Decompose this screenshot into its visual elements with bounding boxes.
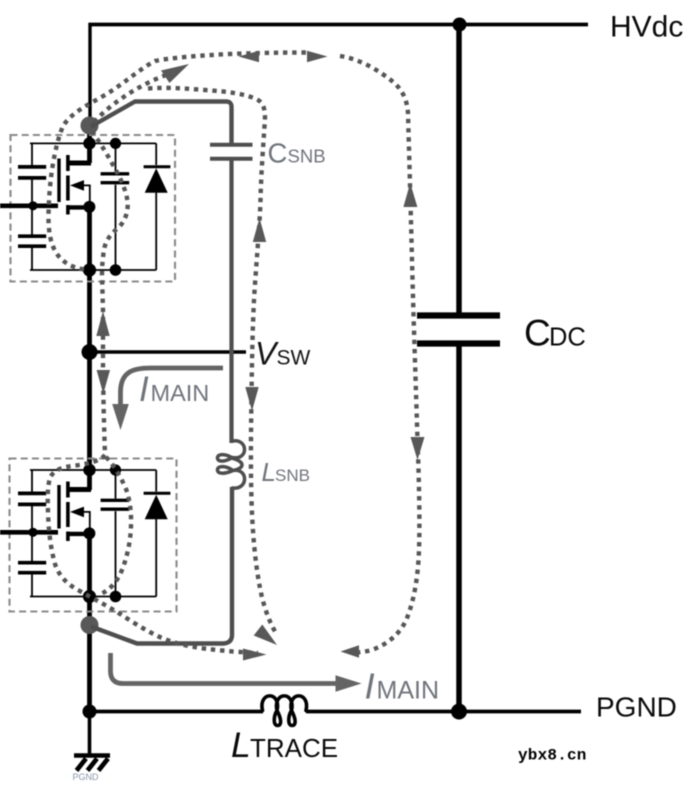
transistor top FET body arrow — [70, 180, 84, 191]
wire PGND bottom rail left — [88, 710, 263, 714]
capacitor bottom FET drain-source — [101, 500, 130, 509]
node bottom FET source junction — [83, 527, 95, 539]
wire top FET drain stub — [68, 161, 91, 166]
wire PGND bottom rail right — [306, 710, 581, 714]
wire Vsw node line — [88, 350, 246, 354]
svg-text:SNB: SNB — [288, 146, 326, 167]
wire CDC rail lower — [456, 346, 462, 713]
node HVdc junction to CDC — [453, 18, 467, 32]
wire snubber mid branch — [229, 159, 233, 443]
module bottom FET dashed box — [10, 459, 177, 612]
wire mid rail source top FET to bottom drain — [87, 205, 92, 490]
arrow IMAIN bottom head — [336, 675, 362, 692]
arrow dotted snubber up — [253, 218, 266, 242]
label CSNB — [268, 138, 326, 169]
svg-text:PGND: PGND — [73, 772, 100, 782]
inductor LSNB — [217, 441, 244, 488]
svg-text:SW: SW — [277, 347, 311, 370]
wire IMAIN arrow top — [121, 368, 224, 404]
capacitor bottom FET gate-source — [18, 563, 46, 573]
node bottom FET gate junction — [28, 528, 37, 537]
svg-text:PGND: PGND — [596, 692, 677, 723]
wire bottom FET drain stub — [68, 487, 91, 492]
node top FET top-left junction — [83, 137, 95, 149]
wire top FET mid cap leads — [115, 143, 117, 270]
wire IMAIN arrow bottom — [111, 653, 338, 684]
arrow IMAIN top head — [112, 404, 129, 430]
wire dotted outer loop — [48, 53, 419, 653]
capacitor CDC — [417, 316, 500, 344]
node top FET bottom-left junction — [83, 263, 96, 276]
svg-text:V: V — [255, 336, 279, 372]
wire snubber top branch — [91, 102, 232, 146]
module top FET dashed box — [11, 135, 176, 282]
wire top FET body connection — [83, 185, 90, 204]
wire dotted snubber loop — [148, 88, 276, 633]
capacitor bottom FET gate-drain — [18, 493, 46, 504]
label LTRACE — [231, 725, 338, 765]
svg-text:MAIN: MAIN — [151, 380, 210, 406]
wire top FET gate lead — [0, 204, 58, 209]
diode top FET cathode bar — [144, 165, 171, 168]
wire top FET internal bottom — [30, 269, 156, 271]
svg-text:SNB: SNB — [275, 466, 310, 485]
wire mid rail drain top FET — [87, 124, 92, 163]
wire bottom FET mid cap leads — [115, 470, 117, 597]
svg-text:ybx8.cn: ybx8.cn — [518, 747, 587, 765]
wire bottom FET body connection — [83, 512, 90, 531]
arrow dotted top arc left — [239, 51, 260, 62]
inductor LTRACE — [262, 696, 307, 726]
label IMAIN bottom — [365, 666, 440, 707]
node snubber tap top (gray) — [81, 117, 99, 135]
wire dotted left vertical — [92, 131, 128, 455]
transistor bottom FET channel segments — [66, 482, 70, 542]
node PGND junction to CDC — [451, 704, 467, 720]
capacitor CSNB — [210, 145, 253, 159]
wire dotted merge branch — [94, 75, 166, 122]
capacitor top FET gate-drain — [18, 167, 46, 178]
transistor top FET channel segments — [66, 155, 70, 215]
node bottom FET top-left junction — [83, 464, 95, 476]
arrow dotted outer loop end — [341, 645, 360, 657]
wire bottom FET internal bottom — [30, 596, 156, 598]
label LSNB — [262, 457, 310, 487]
arrow dotted top-left on arc — [161, 64, 189, 83]
node top FET gate junction — [28, 201, 37, 210]
wire snubber bottom branch — [91, 487, 232, 644]
arrow dotted right line down — [411, 437, 425, 460]
wire HVdc top rail — [89, 23, 589, 27]
svg-text:TRACE: TRACE — [250, 733, 338, 763]
ground — [74, 711, 110, 771]
svg-text:HVdc: HVdc — [610, 11, 683, 44]
wire top FET source stub — [68, 205, 89, 209]
arrow dotted top arc right — [307, 51, 328, 62]
diode top FET triangle — [145, 168, 168, 193]
node top FET source junction — [83, 201, 95, 213]
wire mid rail source bottom FET to PGND — [87, 532, 92, 713]
svg-text:I: I — [365, 666, 375, 707]
diode top FET body diode leads — [155, 143, 157, 270]
svg-text:DC: DC — [549, 324, 586, 352]
arrow dotted bottom-left loop end — [243, 649, 267, 661]
svg-text:I: I — [139, 370, 149, 409]
arrow dotted snubber down — [245, 387, 258, 411]
svg-text:L: L — [262, 457, 276, 487]
node snubber tap bottom (gray) — [81, 616, 99, 634]
arrow dotted left line up — [96, 311, 109, 336]
diode bottom FET cathode bar — [144, 492, 171, 495]
wire left rail upper — [88, 23, 91, 130]
wire bottom FET source stub — [68, 532, 89, 536]
wire top FET internal top — [30, 142, 156, 144]
wire bottom FET internal top — [30, 469, 156, 471]
node bottom FET bottom-mid junction — [110, 591, 122, 603]
diode bottom FET triangle — [145, 495, 168, 520]
label IMAIN top — [139, 370, 209, 409]
transistor top FET gate bar — [57, 159, 60, 203]
svg-text:C: C — [268, 138, 288, 169]
arrow dotted left line down — [97, 370, 110, 394]
wire top FET left chain — [31, 143, 33, 270]
capacitor top FET gate-source — [18, 236, 46, 246]
diode bottom FET body diode leads — [155, 470, 157, 597]
svg-text:C: C — [524, 313, 551, 354]
wire dotted bottom-right fork — [99, 457, 131, 595]
node PGND junction left — [83, 705, 97, 719]
capacitor top FET drain-source — [101, 174, 130, 183]
transistor bottom FET gate bar — [57, 485, 60, 529]
arrow dotted right line up — [403, 183, 417, 207]
label Vsw — [255, 336, 311, 372]
wire bottom FET gate lead — [0, 530, 58, 535]
wire bottom FET left chain — [31, 470, 33, 597]
node bottom FET bottom-left junction — [83, 590, 96, 603]
node top FET bottom-mid junction — [110, 264, 122, 276]
node Vsw junction — [82, 344, 98, 360]
label CDC — [524, 313, 586, 354]
arrow dotted snubber loop end — [254, 625, 277, 646]
node top FET top-mid junction — [110, 138, 121, 149]
wire dotted bottom-left loop — [48, 455, 258, 653]
svg-text:MAIN: MAIN — [377, 677, 440, 705]
wire CDC rail upper — [456, 24, 462, 313]
svg-text:L: L — [231, 725, 251, 765]
transistor bottom FET body arrow — [70, 507, 84, 518]
node bottom FET top-mid junction — [110, 464, 121, 475]
